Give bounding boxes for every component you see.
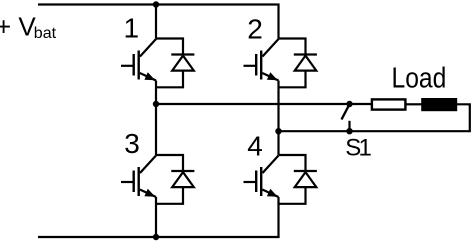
diode D4 bottom wire xyxy=(279,187,306,204)
wire Q4 emitter drop xyxy=(277,197,279,237)
transistor Q2 body bar xyxy=(260,51,262,80)
diode D3 bottom wire xyxy=(156,187,183,204)
wire top bus xyxy=(38,3,277,5)
wire Q2 emitter drop through mid bus to Q4 xyxy=(277,81,279,156)
transistor Q3 emitter slant xyxy=(140,190,156,198)
node load branch dot xyxy=(275,128,281,134)
transistor Q4 gate lead xyxy=(244,181,257,183)
wire T1 collector drop xyxy=(155,5,157,39)
svg-text:3: 3 xyxy=(124,128,140,159)
transistor Q3 emitter arrow xyxy=(144,189,155,197)
diode D3 triangle xyxy=(172,172,194,187)
transistor Q2 gate lead xyxy=(244,65,257,67)
diode D3 bar xyxy=(171,170,194,172)
wire load bottom xyxy=(279,104,470,131)
wire Q1 emitter drop xyxy=(155,81,157,156)
transistor Q3 collector slant xyxy=(140,156,156,174)
transistor Q1 emitter slant xyxy=(140,73,156,81)
transistor Q4 wires to diode xyxy=(279,155,306,171)
diode D4 triangle xyxy=(295,172,317,187)
transistor Q3 gate bar xyxy=(132,171,134,193)
resistor box (white) xyxy=(372,99,406,109)
svg-text:Load: Load xyxy=(392,62,447,94)
node middle bus left dot xyxy=(153,101,159,107)
transistor Q3 body bar xyxy=(137,167,139,196)
svg-text:2: 2 xyxy=(247,13,263,44)
switch S1 blade xyxy=(342,107,349,120)
transistor Q4 body bar xyxy=(260,167,262,196)
transistor Q2 emitter slant xyxy=(262,73,278,81)
transistor Q1 gate lead xyxy=(121,65,134,67)
wire bottom bus xyxy=(38,236,280,238)
transistor Q3 wires to diode xyxy=(156,155,183,171)
svg-text:bat: bat xyxy=(34,25,57,42)
transistor Q2 wires to diode xyxy=(279,39,306,55)
node switch bottom dot xyxy=(346,128,352,134)
wire between load elements xyxy=(406,103,422,105)
diode D2 bottom wire xyxy=(279,70,306,87)
transistor Q4 collector slant xyxy=(263,156,279,174)
diode D1 bar xyxy=(171,53,194,55)
transistor Q1 collector slant xyxy=(140,39,156,57)
diode D2 triangle xyxy=(295,56,317,71)
wire switch to resistor xyxy=(350,103,372,105)
transistor Q4 emitter arrow xyxy=(267,189,278,197)
diode D1 bottom wire xyxy=(156,70,183,87)
transistor Q1 wires to diode xyxy=(156,39,183,55)
transistor Q3 gate lead xyxy=(121,181,134,183)
switch S1 bottom stub xyxy=(348,121,350,131)
svg-text:4: 4 xyxy=(247,131,263,162)
diode D1 triangle xyxy=(172,56,194,71)
transistor Q1 gate bar xyxy=(132,54,134,76)
transistor Q2 gate bar xyxy=(255,54,257,76)
transistor Q1 body bar xyxy=(137,51,139,80)
transistor Q2 collector slant xyxy=(263,39,279,57)
node top bus junction dot xyxy=(153,1,159,7)
transistor Q4 gate bar xyxy=(255,171,257,193)
transistor Q2 emitter arrow xyxy=(267,72,278,80)
svg-text:1: 1 xyxy=(124,12,140,43)
diode D4 bar xyxy=(294,170,317,172)
svg-text:S1: S1 xyxy=(345,134,372,161)
wire T2 collector drop (top bus right corner) xyxy=(277,3,279,38)
wire middle bus xyxy=(156,103,350,105)
transistor Q1 emitter arrow xyxy=(144,72,155,80)
node switch top dot xyxy=(346,101,352,107)
transistor Q4 emitter slant xyxy=(262,190,278,198)
diode D2 bar xyxy=(294,53,317,55)
svg-text:+ V: + V xyxy=(0,11,36,41)
load element box (black) xyxy=(421,98,457,111)
wire Q3 emitter drop xyxy=(155,197,157,237)
node bottom bus junction dot xyxy=(153,234,159,240)
